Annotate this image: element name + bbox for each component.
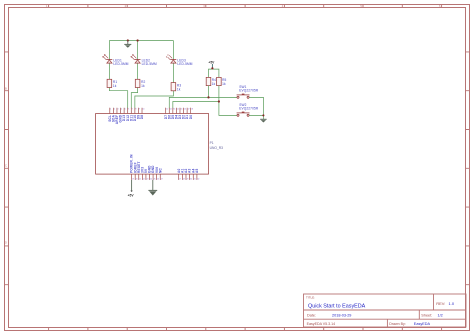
node junction R5 SW2 <box>218 100 220 102</box>
svg-text:11: 11 <box>166 109 168 111</box>
P1 UNO_R3 label <box>210 141 224 150</box>
svg-text:3: 3 <box>117 109 118 111</box>
svg-text:28: 28 <box>183 179 185 181</box>
svg-text:LED-5MM: LED-5MM <box>142 62 157 66</box>
svg-text:Date:: Date: <box>307 313 316 317</box>
pin D3 <box>178 108 182 120</box>
svg-text:UNO_R3: UNO_R3 <box>210 146 224 150</box>
pin D6 <box>167 108 171 120</box>
node junction R4 SW1 <box>207 96 209 98</box>
title block <box>304 294 467 327</box>
svg-text:26: 26 <box>157 179 159 181</box>
pin 3V3 <box>140 167 144 181</box>
pin 5V <box>144 168 148 180</box>
svg-text:13: 13 <box>173 109 175 111</box>
switch SW2 EVQ22705R <box>237 103 259 116</box>
pin GND <box>119 108 123 123</box>
node junction sw gnd <box>262 114 264 116</box>
svg-text:D8: D8 <box>140 115 144 120</box>
svg-text:25: 25 <box>154 179 156 181</box>
svg-text:NC: NC <box>158 167 162 173</box>
schematic <box>96 39 267 197</box>
pin A1 <box>180 168 184 180</box>
ground bottom <box>148 190 157 195</box>
svg-text:29: 29 <box>186 179 188 181</box>
svg-text:EVQ22705R: EVQ22705R <box>239 89 259 93</box>
svg-text:7: 7 <box>132 109 133 111</box>
node junction top rail gnd tap <box>127 39 129 41</box>
svg-text:P1: P1 <box>210 141 214 145</box>
svg-text:B: B <box>5 87 7 91</box>
svg-text:REV:: REV: <box>436 301 445 306</box>
pin GND <box>151 165 155 181</box>
pin A4 <box>191 168 195 180</box>
svg-text:C: C <box>5 164 7 168</box>
pin RESET <box>137 161 141 180</box>
svg-text:17: 17 <box>188 109 190 111</box>
svg-text:5: 5 <box>125 109 126 111</box>
svg-text:20: 20 <box>136 179 138 181</box>
pin D7 <box>164 108 168 120</box>
svg-text:Sheet:: Sheet: <box>421 313 432 317</box>
svg-text:12: 12 <box>170 109 172 111</box>
svg-text:10: 10 <box>143 109 145 111</box>
svg-text:8: 8 <box>135 109 136 111</box>
pin D2 <box>182 108 186 120</box>
svg-text:EVQ22705R: EVQ22705R <box>239 107 259 111</box>
wire SW1 right to gnd rail <box>249 97 263 115</box>
wire R4 to SW1 and pin D6 <box>169 86 237 109</box>
switch SW1 EVQ22705R <box>237 85 259 98</box>
pin IOREF <box>133 162 137 180</box>
resistor R2 1k <box>135 79 145 88</box>
wire bottom 5V pin <box>131 180 133 191</box>
svg-text:2018-03-29: 2018-03-29 <box>332 313 351 317</box>
svg-text:+5V: +5V <box>208 60 215 64</box>
svg-text:+5V: +5V <box>128 194 135 198</box>
resistor R1 1k <box>107 79 117 88</box>
pin D1 <box>185 108 189 120</box>
svg-text:1/2: 1/2 <box>438 313 443 317</box>
svg-text:Drawn By:: Drawn By: <box>389 322 406 326</box>
svg-text:24: 24 <box>150 179 152 181</box>
svg-text:14: 14 <box>177 109 179 111</box>
svg-text:19: 19 <box>132 179 134 181</box>
svg-text:D0: D0 <box>189 115 193 120</box>
node junction top rail LED2 tap <box>137 39 139 41</box>
svg-text:1k: 1k <box>141 84 145 88</box>
svg-text:EasyEDA V5.3.14: EasyEDA V5.3.14 <box>307 322 336 326</box>
wire SW2 right to gnd <box>249 115 263 119</box>
svg-text:1k: 1k <box>222 82 226 86</box>
svg-text:1k: 1k <box>177 87 181 91</box>
pin GND <box>148 165 152 181</box>
svg-text:1k: 1k <box>113 84 117 88</box>
pin A5 <box>195 168 199 180</box>
wire R5 to SW2 and pin D5 <box>173 86 237 116</box>
pin D0 <box>189 108 193 120</box>
pin D11 <box>129 108 133 121</box>
wire LED1 column to pin D12 <box>109 41 127 109</box>
resistor R3 1k <box>171 83 181 92</box>
LED1 LED-5MM <box>102 54 129 66</box>
pin D5 <box>171 108 175 120</box>
svg-text:1.0: 1.0 <box>449 301 455 306</box>
svg-text:A5: A5 <box>195 168 199 173</box>
svg-text:15: 15 <box>180 109 182 111</box>
pin A2 <box>184 168 188 180</box>
pin POWER <box>130 154 134 181</box>
svg-text:21: 21 <box>139 179 141 181</box>
power flag +5V top <box>208 60 215 68</box>
op-amp/connector P1 UNO_R3 body <box>96 114 209 175</box>
wire LED3 column to pin D10 <box>135 41 174 109</box>
wire +5V to R4 R5 <box>209 69 219 77</box>
svg-text:31: 31 <box>194 179 196 181</box>
resistor R4 1k <box>206 77 216 86</box>
pin A3 <box>188 168 192 180</box>
svg-text:9: 9 <box>139 109 140 111</box>
node junction +5V <box>211 67 213 69</box>
pin NC <box>158 167 162 180</box>
svg-text:6: 6 <box>128 109 129 111</box>
LED2 LED-5MM <box>131 54 158 66</box>
wire top GND rail <box>109 40 173 42</box>
svg-text:Quick Start to EasyEDA: Quick Start to EasyEDA <box>308 304 366 310</box>
pin D12 <box>126 108 130 122</box>
svg-text:1: 1 <box>110 109 111 111</box>
svg-text:27: 27 <box>161 179 163 181</box>
pin D13 <box>122 108 126 122</box>
svg-text:4: 4 <box>121 109 122 111</box>
ground top <box>124 41 131 48</box>
svg-text:27: 27 <box>179 179 181 181</box>
svg-text:18: 18 <box>191 109 193 111</box>
pin A0 <box>177 168 181 180</box>
svg-text:LED-5MM: LED-5MM <box>113 62 128 66</box>
svg-text:23: 23 <box>146 179 148 181</box>
pin D9 <box>137 108 141 120</box>
ground right <box>260 119 266 122</box>
svg-text:EasyEDA: EasyEDA <box>414 322 431 326</box>
wire LED2 column to pin D11 <box>131 41 137 109</box>
svg-text:1k: 1k <box>212 82 216 86</box>
power flag +5V bottom <box>128 191 135 198</box>
svg-text:LED-5MM: LED-5MM <box>177 62 192 66</box>
pin SDA <box>111 108 115 122</box>
svg-text:30: 30 <box>190 179 192 181</box>
svg-text:32: 32 <box>197 179 199 181</box>
wire bottom GND pin <box>152 180 154 191</box>
svg-text:22: 22 <box>143 179 145 181</box>
svg-text:16: 16 <box>184 109 186 111</box>
svg-text:TITLE:: TITLE: <box>306 295 315 299</box>
pin D10 <box>133 108 137 122</box>
pin D4 <box>175 108 179 120</box>
pin AREF <box>115 108 119 125</box>
pin D8 <box>140 108 144 120</box>
svg-text:D: D <box>5 241 7 245</box>
resistor R5 1k <box>217 77 227 86</box>
pin SCL <box>108 108 112 122</box>
pin VIN <box>155 167 159 181</box>
svg-text:2: 2 <box>114 109 115 111</box>
LED3 LED-5MM <box>166 55 193 66</box>
